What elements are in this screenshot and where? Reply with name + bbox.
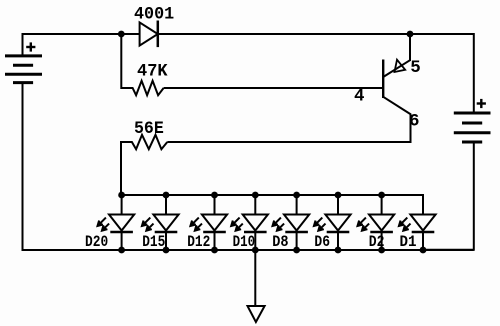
node: anode rail junctions [118, 192, 385, 199]
LED D6 [314, 195, 351, 250]
wire: 56E to transistor pin 6 [167, 141, 410, 143]
svg-text:4: 4 [354, 87, 365, 107]
LED D8 [273, 195, 310, 250]
battery B2 (right, with + terminal) [454, 113, 491, 142]
svg-text:D6: D6 [314, 233, 330, 251]
battery B2 plus label [477, 99, 486, 108]
LED D20 [98, 195, 135, 250]
battery B1 (left, with + terminal) [5, 56, 42, 83]
LED D2 [358, 195, 395, 250]
wire: top rail down to battery B2 [473, 33, 475, 114]
wire: collector (pin 6) down to 56E wire [410, 114, 412, 143]
wire: emitter (pin 5) up to top rail junction [409, 34, 411, 61]
wire: 56E left terminal down to LED anode rail [120, 141, 122, 196]
LED D15 [142, 195, 179, 250]
svg-text:47K: 47K [137, 62, 168, 82]
wire: B1 positive terminal up to top rail [22, 33, 24, 57]
LED D1 [399, 195, 436, 250]
wire: top tap down to resistor 47K [120, 34, 122, 89]
svg-text:56E: 56E [134, 119, 164, 139]
svg-text:D20: D20 [85, 233, 108, 251]
wire: B2 negative terminal down to bottom rail [423, 143, 474, 250]
svg-text:6: 6 [409, 111, 420, 131]
diode 4001 [140, 21, 158, 48]
LED D12 [190, 195, 227, 250]
LED D10 [231, 195, 268, 250]
wire: top rail from diode cathode to right side [158, 33, 474, 35]
svg-text:D15: D15 [142, 233, 165, 251]
wire: LED cathode rail [122, 249, 474, 251]
svg-text:4001: 4001 [134, 5, 174, 25]
junction node at diode anode / 47K tap [118, 31, 125, 38]
wire: cathode rail to ground [254, 250, 256, 306]
battery B1 plus label [26, 42, 35, 51]
wire: B1 negative terminal down left side to cathode rail [23, 83, 123, 250]
resistor 56E [121, 135, 167, 149]
transistor Q1 [383, 60, 411, 115]
junction node at transistor emitter branch [407, 31, 414, 38]
svg-text:D1: D1 [400, 233, 417, 251]
svg-text:D8: D8 [272, 233, 288, 251]
svg-text:D10: D10 [233, 233, 256, 251]
ground [248, 306, 265, 322]
wire: top rail from B1 to diode anode [22, 33, 141, 35]
node: cathode rail junctions [118, 247, 426, 254]
resistor 47K [121, 81, 163, 95]
wire: 47K to transistor base (pin 4) [164, 87, 384, 89]
svg-text:D12: D12 [187, 233, 210, 251]
svg-text:5: 5 [410, 58, 421, 78]
wire: LED anode rail [121, 195, 423, 215]
